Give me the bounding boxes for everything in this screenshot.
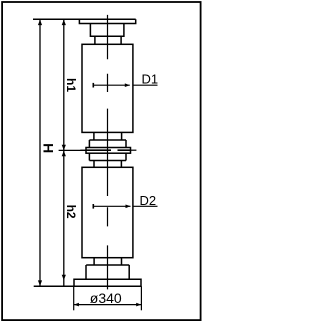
bottom extension line + bottom flange bottom edge [34, 285, 142, 287]
phi340 right arrow [136, 303, 141, 307]
block C below coupling [89, 153, 126, 160]
bottom flange [74, 279, 141, 286]
H top arrow [38, 20, 42, 26]
block B above coupling [89, 140, 126, 148]
dimension h2 line [63, 151, 65, 287]
neck A below upper cylinder [94, 132, 122, 140]
right bolt stub [131, 149, 137, 151]
block F above bottom flange [86, 265, 129, 279]
coupling flange bar [86, 148, 131, 154]
left bolt stub [80, 149, 86, 151]
top flange [79, 19, 135, 23]
svg-text:ø340: ø340 [90, 290, 122, 306]
svg-text:D2: D2 [140, 193, 157, 208]
D1 start tick [92, 83, 94, 88]
phi340 dimension line [74, 304, 142, 306]
neck D above lower cylinder [94, 161, 121, 168]
coupling extension line [59, 149, 86, 151]
phi340 left extension line [73, 286, 75, 310]
H bottom arrow [38, 280, 42, 286]
D2 start tick [92, 204, 94, 209]
neck step 2 [95, 36, 121, 44]
dimension h1 line [63, 19, 65, 150]
h1 bottom arrow [62, 145, 66, 151]
neck E below lower cylinder [94, 258, 121, 265]
svg-text:D1: D1 [142, 72, 159, 87]
D2 arrow [126, 205, 131, 209]
dimension H line [39, 19, 41, 286]
h2 bottom arrow [62, 275, 66, 281]
centerline (dashed vertical axis) [107, 15, 109, 290]
h2 top arrow [62, 151, 66, 157]
coupling parting line [86, 149, 131, 151]
dimension D2 leader [93, 205, 158, 207]
neck step 1 below top flange [90, 24, 124, 37]
upper cylinder D1 [82, 44, 133, 132]
svg-text:H: H [41, 143, 57, 153]
h1 top arrow [62, 20, 66, 26]
phi340 right extension line [140, 286, 142, 310]
D1 arrow [125, 83, 130, 87]
svg-text:h1: h1 [64, 78, 78, 92]
svg-text:h2: h2 [64, 205, 78, 219]
dimension D1 leader [93, 84, 158, 86]
top extension line + top flange top edge [33, 18, 136, 20]
drawing frame border [2, 2, 201, 320]
phi340 left arrow [74, 303, 79, 307]
lower cylinder D2 [82, 167, 133, 257]
